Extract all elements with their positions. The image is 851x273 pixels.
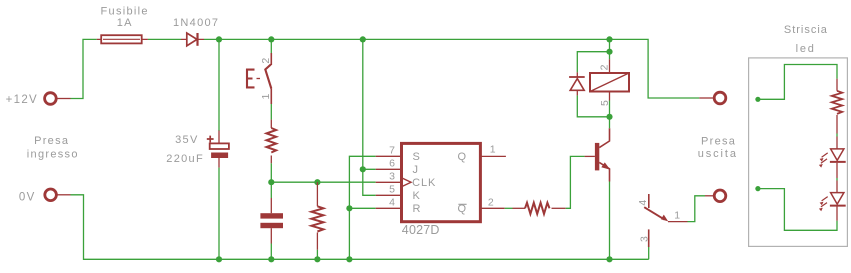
wire: resistor to base: [566, 156, 585, 208]
wire: strip bottom: [758, 189, 837, 231]
U1 pin stub Qn: [480, 207, 504, 209]
node: junction rail/relay: [606, 36, 612, 42]
pin output bottom: [705, 190, 726, 202]
wire: contact to output pin: [688, 196, 706, 222]
wire: contact pin3 to rail: [648, 247, 650, 259]
switch S2 relay contact: [644, 194, 687, 247]
svg-text:Presa: Presa: [701, 136, 736, 148]
node: junction R2: [314, 179, 320, 185]
LED D3: [819, 137, 846, 179]
wire: Qn to base resistor: [505, 207, 513, 209]
node: strip pin bottom: [755, 186, 760, 191]
svg-text:5: 5: [389, 183, 395, 195]
wire: S/R ground net: [349, 156, 375, 259]
resistor R4 strip: [832, 79, 842, 134]
node: strip pin top: [755, 97, 760, 102]
IC U1 4027D (JK flip-flop) body: [402, 143, 481, 221]
svg-text:3: 3: [389, 170, 395, 182]
node: junction rail/S1: [268, 36, 274, 42]
fuse F1: [97, 35, 148, 43]
node: junction C2: [268, 179, 274, 185]
resistor R1 (switch pulldown): [266, 104, 276, 182]
wire: R4 to LED1: [836, 134, 838, 137]
svg-text:Presa: Presa: [34, 135, 69, 147]
wire: top rail diode to right corner then output: [204, 39, 699, 98]
relay K1 coil: [590, 39, 629, 116]
svg-text:K: K: [413, 190, 421, 202]
svg-text:4: 4: [637, 200, 649, 206]
svg-text:1: 1: [490, 144, 496, 156]
diode D1 1N4007: [181, 33, 204, 46]
svg-text:35V: 35V: [175, 134, 198, 146]
svg-text:2: 2: [599, 64, 611, 70]
pin 0V: [45, 189, 71, 201]
svg-text:J: J: [413, 164, 419, 176]
svg-text:1: 1: [674, 210, 680, 222]
resistor R2: [311, 182, 323, 259]
svg-text:Fusibile: Fusibile: [101, 5, 149, 17]
capacitor C2: [260, 182, 283, 259]
U1 pin stubs left: [376, 156, 402, 208]
node: junction rail/C1: [216, 36, 222, 42]
wire: +12V pin to rail corner: [71, 39, 97, 98]
svg-text:5: 5: [599, 100, 611, 106]
svg-text:7: 7: [389, 144, 395, 156]
svg-text:2: 2: [260, 58, 272, 64]
node: bottom rail junctions: [216, 256, 222, 262]
svg-text:ingresso: ingresso: [27, 148, 79, 160]
svg-text:Q: Q: [457, 151, 466, 163]
svg-text:4: 4: [389, 196, 395, 208]
node: junction J pin: [360, 166, 366, 172]
svg-text:led: led: [796, 43, 816, 55]
svg-text:R: R: [413, 203, 421, 215]
wire: CLK net horizontal: [271, 181, 375, 183]
wire: 0V pin to bottom rail: [71, 195, 649, 259]
U1 pin stub Q: [480, 155, 506, 157]
switch S1 pushbutton: [246, 39, 271, 104]
svg-text:4027D: 4027D: [402, 223, 440, 237]
node: junction R pin: [346, 205, 352, 211]
wire: LED1 to LED2: [836, 178, 838, 181]
node: junction relay bottom: [606, 114, 612, 120]
svg-text:220uF: 220uF: [166, 153, 204, 165]
wire: strip top: [758, 65, 837, 100]
svg-text:3: 3: [638, 236, 650, 242]
LED strip box: [749, 58, 848, 247]
diode D2 flyback: [569, 72, 585, 95]
node: junction relay top: [606, 49, 612, 55]
node: junction rail/JK: [360, 36, 366, 42]
wire: top rail fuse-diode: [148, 38, 181, 40]
svg-text:uscita: uscita: [698, 148, 738, 160]
LED D4: [819, 181, 846, 221]
svg-text:1A: 1A: [117, 17, 133, 29]
svg-text:Striscia: Striscia: [784, 24, 828, 36]
svg-text:0V: 0V: [19, 192, 36, 204]
svg-text:2: 2: [488, 197, 494, 209]
svg-text:+12V: +12V: [6, 94, 38, 106]
transistor Q1: [585, 128, 611, 181]
resistor R3 base: [513, 203, 566, 214]
wire: J/K +12V net: [363, 39, 376, 195]
wire: flyback loop: [577, 52, 609, 117]
pin output top: [699, 92, 726, 104]
pin +12V: [45, 93, 71, 105]
svg-text:CLK: CLK: [412, 177, 436, 189]
wire: collector up / emitter down: [609, 117, 611, 259]
svg-text:S: S: [413, 151, 420, 163]
svg-text:1N4007: 1N4007: [173, 17, 219, 29]
capacitor C1 220uF: [207, 39, 229, 259]
svg-text:1: 1: [260, 94, 272, 100]
svg-text:6: 6: [389, 157, 395, 169]
